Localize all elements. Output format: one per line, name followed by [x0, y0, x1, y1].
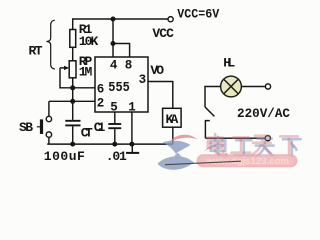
wiper arrow of RP with return wire to bottom terminal [60, 66, 71, 88]
capacitor C1 [108, 112, 121, 144]
wire: bottom ground rail [47, 143, 173, 145]
node: AC terminal top circle [265, 84, 270, 89]
label RP value [79, 54, 93, 80]
relay coil KA [163, 108, 182, 127]
wire: pin 3 output to relay coil [148, 82, 173, 109]
svg-text:100uF: 100uF [44, 149, 85, 164]
label R1 value [79, 22, 99, 49]
node: junction dot on VCC rail above pin 4 [111, 17, 116, 22]
node: junction dot where pin 8 branch splits [111, 41, 116, 46]
svg-text:8: 8 [125, 59, 133, 73]
wire: to pin 6 of 555 [73, 87, 95, 89]
wire: lamp left lead down to relay contact [205, 87, 221, 108]
svg-text:3: 3 [139, 73, 147, 87]
svg-text:SB: SB [19, 120, 33, 135]
svg-text:www.dgjs123.com: www.dgjs123.com [205, 156, 289, 167]
svg-text:10K: 10K [79, 34, 99, 49]
node: junction dot at pin 6 line [70, 85, 75, 90]
wire: pin 2 line from SB branch to 555 [49, 100, 95, 102]
capacitor CT [65, 101, 80, 144]
svg-text:VO: VO [150, 63, 164, 78]
svg-text:4: 4 [110, 59, 118, 73]
node: junction dot CT at rail [70, 142, 75, 147]
svg-text:220V/AC: 220V/AC [237, 106, 290, 121]
watermark logo red swoosh [170, 135, 227, 152]
lamp HL [221, 76, 242, 97]
node: junction dot at pin 2 line [70, 99, 75, 104]
svg-text:6: 6 [97, 83, 105, 97]
svg-text:C1: C1 [94, 120, 106, 135]
wire: vertical from rail junction down to pin 4 of 555 [112, 19, 114, 57]
svg-text:555: 555 [108, 81, 130, 96]
potentiometer RP [69, 61, 76, 78]
svg-text:HL: HL [223, 55, 235, 70]
brace for RT group [47, 20, 55, 69]
node: AC terminal bottom circle [265, 136, 270, 141]
svg-text:VCC=6V: VCC=6V [177, 7, 219, 22]
wire: pin 1 down to ground rail [131, 112, 133, 144]
wire: contact bottom to AC terminal [205, 137, 265, 139]
wire: KA bottom to ground rail [172, 127, 174, 144]
svg-text:VCC: VCC [152, 26, 174, 41]
wire: RP bottom to junction [72, 78, 74, 88]
svg-text:.01: .01 [106, 149, 127, 164]
wire: lamp right lead to AC terminal [241, 86, 265, 88]
svg-text:RT: RT [29, 44, 43, 59]
node: junction dot pin1/ground at rail [129, 142, 134, 147]
push button SB [37, 101, 52, 144]
svg-text:CT: CT [81, 125, 93, 140]
relay contact KA (normally open blade) [205, 107, 214, 138]
watermark chinese characters red offset copies [208, 134, 298, 154]
wire: R1 bottom to RP top [72, 47, 74, 61]
watermark logo blue Z [158, 141, 195, 170]
watermark pen line [165, 161, 241, 165]
svg-text:5: 5 [110, 101, 118, 115]
wire: vertical between pin6 and pin2 junctions [72, 88, 74, 102]
ground symbol [126, 144, 139, 153]
svg-text:1M: 1M [79, 64, 93, 79]
svg-text:2: 2 [97, 96, 105, 110]
IC 555 timer U1 [95, 57, 148, 112]
node: junction dot C1 at rail [112, 142, 117, 147]
watermark badge www.dgjs123.com [197, 154, 298, 167]
svg-text:KA: KA [166, 112, 179, 127]
resistor R1 [70, 30, 76, 48]
watermark chinese characters blue copies [211, 137, 301, 157]
wire: branch to pin 8 of 555 [113, 44, 130, 58]
wire: top VCC rail from R1 top corner to supply terminal [73, 19, 168, 30]
node: VCC supply open terminal circle [168, 17, 173, 22]
